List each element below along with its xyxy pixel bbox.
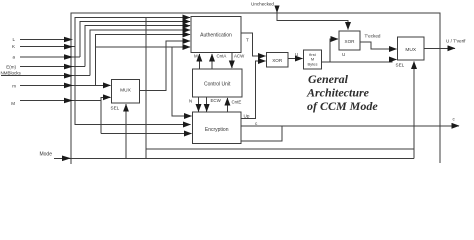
svg-text:Authentication: Authentication: [200, 32, 232, 38]
svg-text:T'ecked: T'ecked: [365, 34, 381, 39]
wire T'ecked: [360, 34, 397, 50]
svg-text:CntA: CntA: [217, 54, 227, 59]
svg-text:N: N: [189, 99, 192, 104]
gate XOR U2: [339, 31, 360, 50]
input K: [12, 44, 15, 49]
caption General Architecture of CCM Mode: [306, 72, 378, 113]
svg-text:Architecture: Architecture: [306, 86, 370, 100]
svg-text:Bytes: Bytes: [307, 62, 317, 67]
svg-text:M: M: [11, 101, 15, 106]
svg-text:Unchecked: Unchecked: [251, 2, 274, 7]
wire E(m): [20, 26, 190, 70]
wire MUX M1 output: [140, 41, 190, 91]
node Unchecked: [251, 2, 274, 7]
wire L: [20, 13, 440, 164]
svg-text:General: General: [308, 72, 349, 86]
block Control Unit: [193, 69, 243, 97]
block Encryption: [193, 112, 242, 144]
svg-text:Mode: Mode: [39, 152, 52, 158]
svg-text:MUX: MUX: [120, 87, 131, 93]
svg-text:of CCM Mode: of CCM Mode: [307, 99, 378, 113]
wire C: [241, 117, 459, 142]
wire K: [20, 18, 414, 159]
wire ECW down arrows: [189, 97, 241, 112]
svg-text:XOR: XOR: [345, 39, 356, 44]
svg-text:T: T: [246, 38, 249, 43]
svg-text:SEL: SEL: [396, 63, 405, 68]
gate XOR U1: [267, 53, 289, 68]
input Mode: [39, 152, 52, 158]
wire NMBlocks: [1, 30, 190, 79]
input E(m): [6, 64, 16, 69]
input NMBlocks: [1, 71, 22, 76]
svg-text:U / T'verif: U / T'verif: [446, 39, 466, 44]
svg-text:M: M: [194, 54, 198, 59]
svg-text:XOR: XOR: [272, 58, 283, 63]
svg-text:U: U: [295, 52, 298, 57]
svg-text:m: m: [12, 83, 16, 88]
block first M Bytes: [304, 50, 322, 69]
svg-text:ECW: ECW: [211, 98, 222, 103]
svg-text:Up: Up: [244, 114, 250, 119]
svg-text:NMBlocks: NMBlocks: [1, 71, 22, 76]
MUX M1: [111, 79, 140, 110]
svg-text:CntE: CntE: [232, 100, 242, 105]
svg-text:E(m): E(m): [6, 64, 16, 69]
svg-text:Control Unit: Control Unit: [204, 82, 231, 88]
wire Up: [241, 61, 266, 119]
input a: [12, 55, 15, 60]
svg-text:K: K: [12, 44, 15, 49]
wire U: [288, 52, 303, 59]
wire U / T'verified output: [424, 39, 466, 49]
input m: [12, 83, 16, 88]
svg-text:Encryption: Encryption: [205, 127, 229, 133]
wire M: [20, 97, 192, 133]
svg-text:c: c: [453, 117, 456, 122]
input L: [12, 37, 15, 42]
wire CntA up arrows: [194, 53, 245, 70]
wire m: [20, 35, 192, 117]
svg-text:L: L: [12, 37, 15, 42]
MUX M2: [396, 37, 425, 68]
wire U to XOR and MUX: [322, 39, 397, 62]
block Authentication: [191, 17, 241, 53]
svg-text:c: c: [255, 121, 258, 126]
svg-text:SEL: SEL: [111, 106, 120, 111]
svg-text:MUX: MUX: [405, 47, 416, 53]
svg-text:a: a: [12, 55, 15, 60]
wire Unchecked: [274, 6, 348, 30]
wire Mode: [54, 104, 414, 161]
svg-text:U: U: [342, 52, 345, 57]
wire a: [20, 22, 190, 60]
input M: [11, 101, 15, 106]
svg-text:ACW: ACW: [234, 54, 245, 59]
wire T: [241, 33, 266, 56]
